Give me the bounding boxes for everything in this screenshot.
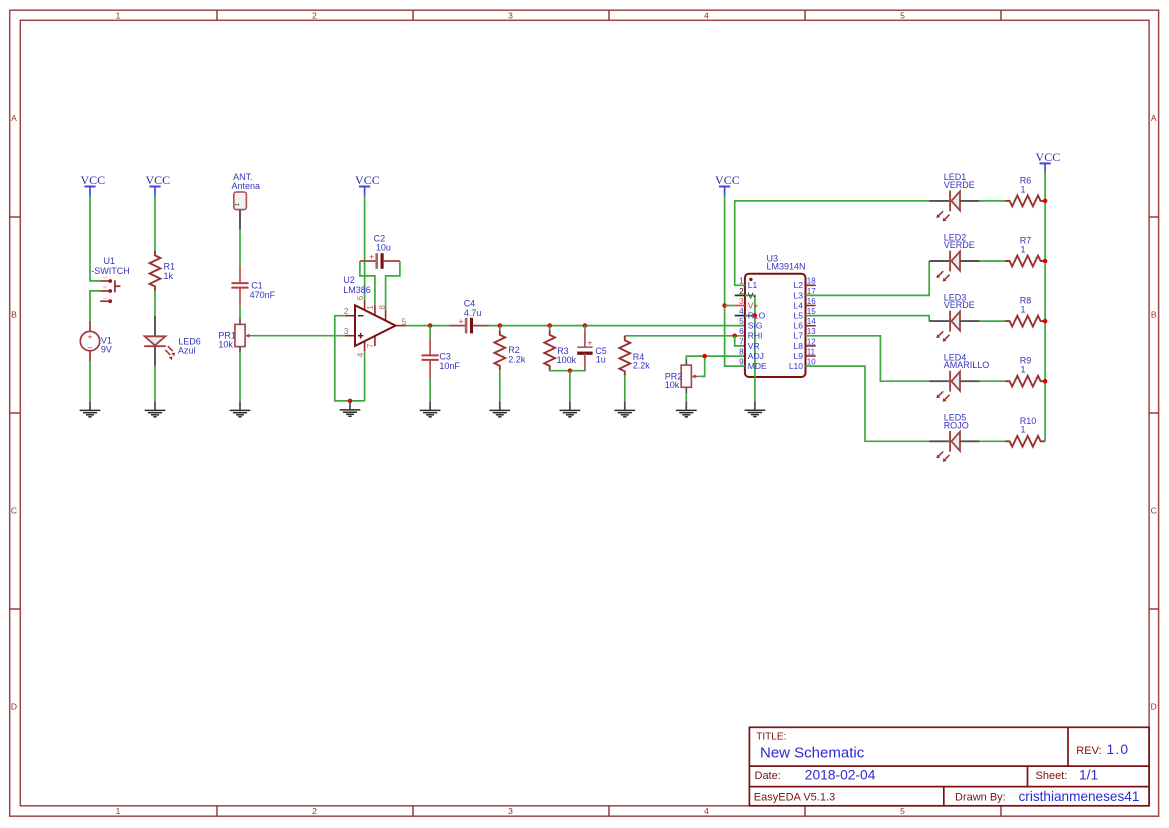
wire LED3 to R8 (980, 320, 1005, 322)
wire PR1 wiper to op-amp pin 3 (253, 335, 345, 337)
resistor R1 (150, 251, 161, 291)
wire PR2 to ground (685, 393, 687, 401)
svg-text:16: 16 (807, 297, 816, 306)
wire U2 pin 4 to ground rail (364, 351, 366, 401)
title block Sheet cell (1036, 767, 1099, 782)
svg-text:L9: L9 (794, 351, 804, 361)
svg-text:11: 11 (807, 347, 816, 356)
svg-text:14: 14 (807, 317, 816, 326)
svg-text:D: D (1151, 702, 1157, 712)
LED LED6 Azul (144, 316, 175, 366)
resistor R2 2.2k (494, 330, 505, 370)
svg-text:1k: 1k (164, 271, 174, 281)
label R1 1k (164, 261, 176, 281)
wire C2 left to U2 pin 1 (360, 261, 375, 305)
svg-text:10: 10 (807, 358, 816, 367)
wire switch U1 COM to battery V1 (90, 291, 100, 321)
capacitor C3 10nF (422, 339, 439, 379)
junction R3 C5 ground node (568, 368, 573, 373)
title block REV (1076, 742, 1129, 757)
junction LED rail R8 (1043, 319, 1048, 324)
LED LED2 VERDE (929, 232, 980, 281)
label C5 1u (595, 346, 607, 365)
svg-text:8: 8 (739, 347, 744, 356)
frame column numbers bottom (116, 806, 906, 816)
power flag VCC net U2 (355, 173, 380, 196)
wire U3 pin 1 to LED1 (735, 201, 930, 285)
svg-text:L10: L10 (789, 361, 803, 371)
wire ADJ line PR2 to U3 pin 8 (686, 356, 745, 359)
wire VCC junction to U3 pin 3 (725, 305, 735, 307)
pin numbers U2 (344, 295, 407, 357)
svg-text:10k: 10k (218, 339, 233, 349)
wire VCC to R1 (154, 195, 156, 251)
svg-text:ADJ: ADJ (748, 351, 764, 361)
svg-text:Sheet:: Sheet: (1036, 770, 1068, 782)
svg-text:TITLE:: TITLE: (756, 731, 786, 742)
svg-text:LM386: LM386 (343, 285, 371, 295)
wire R4 to ground (624, 376, 626, 402)
svg-text:1: 1 (116, 10, 121, 20)
svg-text:10u: 10u (376, 243, 391, 253)
label R4 2.2k (633, 352, 651, 370)
svg-text:17: 17 (807, 287, 816, 296)
capacitor C5 1u (577, 330, 592, 370)
ground R2 (489, 401, 510, 416)
svg-text:C: C (1151, 506, 1157, 516)
svg-text:3: 3 (344, 326, 349, 336)
svg-text:AMARILLO: AMARILLO (944, 360, 990, 370)
label C1 470nF (250, 280, 276, 300)
label R9 1 (1020, 356, 1032, 375)
capacitor C4 4.7u (449, 316, 489, 333)
wire LED5 to R10 (980, 440, 1005, 442)
svg-text:VERDE: VERDE (944, 300, 975, 310)
svg-text:VCC: VCC (1036, 150, 1061, 164)
title block Date row (755, 767, 876, 782)
junction R3 (547, 323, 552, 328)
svg-text:1: 1 (1021, 425, 1026, 435)
potentiometer PR2 10k (665, 359, 699, 393)
op-amp U2 LM386 (345, 301, 406, 352)
svg-text:9: 9 (739, 358, 744, 367)
svg-text:VERDE: VERDE (944, 180, 975, 190)
svg-text:A: A (1151, 113, 1157, 123)
ground op-amp (340, 401, 361, 416)
svg-text:2: 2 (344, 306, 349, 316)
svg-text:12: 12 (807, 337, 816, 346)
svg-text:New Schematic: New Schematic (760, 745, 865, 762)
junction RLO ground rail (753, 313, 758, 318)
svg-text:4: 4 (356, 352, 365, 357)
wire VCC to U2 pin 6 (364, 195, 366, 301)
wire R1 to LED6 (154, 291, 156, 316)
battery V1 9V (80, 321, 99, 362)
label C3 10nF (439, 351, 460, 371)
label R7 1 (1020, 236, 1032, 255)
svg-text:RHI: RHI (748, 331, 763, 341)
ground battery column (80, 401, 101, 416)
wire R2 to ground (499, 370, 501, 401)
svg-text:+: + (88, 332, 93, 341)
resistor R8 1 (1005, 316, 1045, 327)
svg-text:VCC: VCC (355, 173, 380, 187)
ground U3 (745, 401, 766, 416)
svg-text:VCC: VCC (715, 173, 740, 187)
wire U3 pin 13 to LED4 (806, 336, 930, 381)
svg-text:Date:: Date: (755, 770, 781, 782)
svg-text:Drawn By:: Drawn By: (955, 792, 1006, 804)
svg-text:L2: L2 (794, 280, 804, 290)
svg-text:C4: C4 (464, 298, 476, 308)
wire ground node down (569, 371, 571, 402)
svg-text:C: C (11, 506, 17, 516)
svg-text:U2: U2 (343, 275, 355, 285)
LED LED5 ROJO (929, 413, 980, 462)
svg-text:1u: 1u (596, 355, 606, 365)
ground C3 (420, 401, 441, 416)
wire C3 to ground (429, 379, 431, 402)
wire C5 top stub (584, 326, 586, 331)
wire PR1 to ground (239, 353, 241, 402)
svg-text:R1: R1 (164, 261, 176, 271)
wire signal line C4 to U3 SIG (489, 325, 745, 327)
svg-text:1: 1 (235, 203, 241, 206)
svg-text:1/1: 1/1 (1079, 767, 1098, 782)
label U1 -SWITCH (91, 256, 130, 276)
svg-text:Antena: Antena (232, 181, 261, 191)
svg-text:NO: NO (103, 296, 108, 300)
svg-text:L4: L4 (794, 300, 804, 310)
label V1 9V (101, 336, 112, 355)
IC U3 LM3914N body (745, 274, 806, 377)
wire VCC to U3 V+ and MDE (725, 195, 745, 366)
svg-text:V-: V- (748, 290, 756, 300)
label ANT. Antena (232, 172, 261, 191)
LED LED3 VERDE (929, 292, 980, 341)
wire LED6 to ground (154, 366, 156, 402)
svg-text:VCC: VCC (80, 173, 105, 187)
U3 right pin names (789, 280, 803, 371)
junction PR2 ADJ (702, 354, 707, 359)
ground PR1 column (230, 401, 251, 416)
label C4 4.7u (464, 298, 482, 318)
label R10 1 (1020, 416, 1037, 435)
resistor R9 1 (1005, 376, 1045, 387)
wire battery V1 to ground (89, 361, 91, 401)
resistor R10 1 (1005, 436, 1045, 447)
wire U3 pin 15 to LED3 (806, 316, 930, 322)
junction op-amp ground (348, 399, 353, 404)
wire VCC LED rail (1044, 171, 1046, 442)
LED LED1 VERDE (929, 172, 980, 221)
wire U3 pin 2 V- to ground rail (735, 295, 755, 401)
resistor R7 1 (1005, 256, 1045, 267)
wire C2 right to U2 pin 8 (386, 261, 400, 310)
label R3 100k (557, 346, 577, 365)
svg-text:-SWITCH: -SWITCH (91, 266, 130, 276)
svg-text:1: 1 (739, 277, 744, 286)
switch U1 (100, 275, 120, 303)
ground R3 C5 node (560, 401, 581, 416)
svg-text:Azul: Azul (178, 345, 196, 355)
svg-text:EasyEDA V5.1.3: EasyEDA V5.1.3 (754, 792, 835, 804)
svg-text:MDE: MDE (748, 361, 767, 371)
wire R3 bottom to C5 bottom (550, 369, 585, 371)
resistor R6 1 (1005, 196, 1045, 207)
antenna ANT1 (234, 192, 247, 230)
svg-text:SIG: SIG (748, 321, 763, 331)
wire U2 pin 2 to ground rail (335, 316, 365, 401)
svg-text:+: + (369, 252, 374, 262)
svg-text:+: + (587, 338, 592, 348)
svg-text:6: 6 (356, 295, 365, 300)
svg-text:4: 4 (739, 307, 744, 316)
svg-text:6: 6 (739, 327, 744, 336)
junction VCC V+ (722, 303, 727, 308)
power flag VCC net U3 (715, 173, 740, 196)
svg-text:8: 8 (378, 305, 387, 310)
power flag VCC net V1 column (80, 173, 105, 196)
wire U2 output to C4 (406, 325, 450, 327)
svg-text:3: 3 (508, 10, 513, 20)
wire U3 pin 17 to LED2 (806, 261, 930, 295)
potentiometer PR1 10k (218, 318, 252, 352)
svg-text:C3: C3 (439, 351, 451, 361)
wire LED4 to R9 (980, 380, 1005, 382)
svg-text:ROJO: ROJO (944, 420, 969, 430)
ground PR2 (676, 401, 697, 416)
junction RHI VR tie (732, 334, 737, 339)
svg-text:1: 1 (366, 305, 375, 310)
svg-text:2: 2 (312, 806, 317, 816)
svg-text:5: 5 (739, 317, 744, 326)
wire LED1 to R6 (980, 200, 1005, 202)
title block Drawn By (955, 789, 1139, 804)
label R2 2.2k (508, 345, 526, 365)
capacitor C1 470nF (231, 266, 248, 306)
svg-text:VERDE: VERDE (944, 240, 975, 250)
svg-text:2.2k: 2.2k (508, 354, 526, 364)
svg-text:4.7u: 4.7u (464, 308, 482, 318)
svg-text:L3: L3 (794, 290, 804, 300)
frame row letters (11, 113, 1157, 712)
svg-text:18: 18 (807, 277, 816, 286)
U3 left pin numbers 1-9 (739, 277, 744, 367)
svg-text:4: 4 (704, 10, 709, 20)
svg-text:2.2k: 2.2k (633, 360, 651, 370)
wire C3 tap down (429, 326, 431, 339)
label R8 1 (1020, 296, 1032, 315)
label C2 10u (374, 234, 391, 253)
svg-text:2: 2 (312, 10, 317, 20)
svg-text:3: 3 (739, 297, 744, 306)
ground R4 (614, 401, 635, 416)
svg-text:10nF: 10nF (439, 361, 460, 371)
svg-text:L6: L6 (794, 321, 804, 331)
svg-text:1: 1 (1021, 184, 1026, 194)
svg-text:NO: NO (103, 285, 108, 289)
svg-text:L8: L8 (794, 341, 804, 351)
svg-text:B: B (11, 310, 17, 320)
svg-text:VR: VR (748, 341, 760, 351)
capacitor C2 10u (360, 252, 400, 269)
svg-text:+: + (459, 316, 464, 326)
svg-text:10k: 10k (665, 380, 680, 390)
junction C3 tap (428, 323, 433, 328)
svg-text:V+: V+ (748, 300, 759, 310)
wire U3 pin 4 RLO to ground rail (735, 315, 755, 317)
label U3 LM3914N (767, 253, 806, 271)
svg-text:5: 5 (900, 10, 905, 20)
svg-text:7: 7 (366, 343, 375, 348)
junction LED rail R7 (1043, 259, 1048, 264)
svg-text:3: 3 (508, 806, 513, 816)
junction LED rail R6 (1043, 199, 1048, 204)
svg-text:R2: R2 (508, 345, 520, 355)
svg-text:VCC: VCC (145, 173, 170, 187)
U3 right pin leads unconnected (806, 285, 816, 356)
svg-text:D: D (11, 702, 17, 712)
svg-text:A: A (11, 113, 17, 123)
svg-text:100k: 100k (557, 355, 577, 365)
svg-text:7: 7 (739, 337, 744, 346)
title block border (749, 727, 1149, 806)
svg-text:15: 15 (807, 307, 816, 316)
label LED6 Azul (178, 337, 201, 356)
frame column numbers top (116, 10, 906, 20)
svg-text:1: 1 (1021, 365, 1026, 375)
wire R2 top stub (499, 326, 501, 331)
svg-text:5: 5 (900, 806, 905, 816)
svg-text:LM3914N: LM3914N (767, 262, 806, 272)
svg-text:2: 2 (739, 287, 744, 296)
wire U3 pin 10 to LED5 (806, 366, 930, 441)
wire R3 top stub (549, 326, 551, 331)
svg-text:L1: L1 (748, 280, 758, 290)
svg-text:9V: 9V (101, 345, 112, 355)
U3 left pin names (748, 280, 767, 371)
wire antenna to C1 (239, 230, 241, 266)
wire C1 to PR1 (239, 306, 241, 318)
label U2 LM386 (343, 275, 371, 295)
junction LED rail R9 (1043, 379, 1048, 384)
wire LED2 to R7 (980, 260, 1005, 262)
svg-text:U1: U1 (104, 256, 116, 266)
resistor R3 100k (544, 330, 555, 370)
svg-text:4: 4 (704, 806, 709, 816)
junction C5 (583, 323, 588, 328)
resistor R4 2.2k (619, 336, 630, 376)
power flag VCC net R1 column (145, 173, 170, 196)
svg-text:REV:: REV: (1076, 745, 1101, 757)
wire U3 pin 6 to pin 7 (735, 336, 745, 346)
svg-text:1: 1 (1021, 305, 1026, 315)
svg-text:L5: L5 (794, 311, 804, 321)
wire VCC to switch U1 pin NO (90, 195, 100, 281)
wire RHI line R4 to U3 pin 6 (625, 335, 745, 337)
svg-text:2018-02-04: 2018-02-04 (805, 767, 876, 782)
wire PR2 wiper to ADJ line (699, 356, 705, 376)
svg-text:470nF: 470nF (250, 290, 276, 300)
svg-text:L7: L7 (794, 331, 804, 341)
svg-text:C1: C1 (251, 280, 263, 290)
U3 right pin numbers 18-10 (807, 277, 816, 367)
svg-text:13: 13 (807, 327, 816, 336)
LED LED4 AMARILLO (929, 353, 989, 402)
svg-text:cristhianmeneses41: cristhianmeneses41 (1019, 789, 1140, 804)
ground LED6 column (145, 401, 166, 416)
junction R2 (498, 323, 503, 328)
power flag VCC net LED rail (1036, 150, 1061, 173)
svg-text:1: 1 (116, 806, 121, 816)
svg-text:B: B (1151, 310, 1157, 320)
label R6 1 (1020, 175, 1032, 194)
svg-text:1: 1 (1021, 244, 1026, 254)
U3 left pin leads (735, 295, 745, 315)
svg-text:1.0: 1.0 (1107, 742, 1130, 757)
